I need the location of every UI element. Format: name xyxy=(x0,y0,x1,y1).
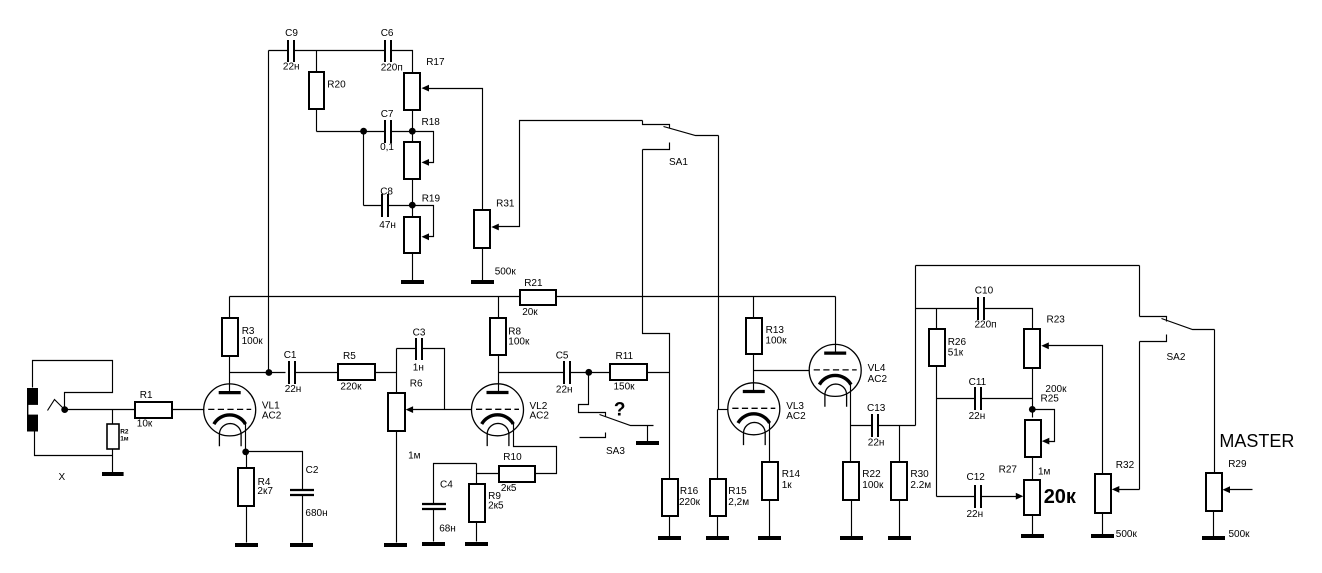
svg-text:22н: 22н xyxy=(868,437,885,448)
wire to C4 xyxy=(434,464,477,505)
R25 wiper arrow xyxy=(1042,438,1050,445)
R32 wiper arrow xyxy=(1112,486,1120,493)
wire R29 bottom lead xyxy=(1213,512,1215,537)
wire R20 bottom lead xyxy=(316,110,318,132)
svg-text:20к: 20к xyxy=(1044,486,1077,508)
wire C9 to C6 xyxy=(295,50,385,52)
capacitor C1 xyxy=(289,361,295,384)
svg-text:220к: 220к xyxy=(340,382,362,393)
wire cathode to C2 xyxy=(246,452,303,491)
resistor R26 xyxy=(929,329,945,366)
wire C7 node down to C8 xyxy=(363,132,365,206)
wire R6 bottom lead xyxy=(396,431,398,543)
wire R30 bottom lead xyxy=(899,500,901,537)
svg-text:R19: R19 xyxy=(422,193,441,204)
resistor R20 xyxy=(309,72,324,109)
svg-text:AC2: AC2 xyxy=(868,374,888,385)
node R19 top junction xyxy=(409,202,416,209)
svg-text:R21: R21 xyxy=(524,278,543,289)
wire R30 top lead xyxy=(899,426,901,463)
wire R15 bottom lead xyxy=(717,516,719,537)
svg-text:1н: 1н xyxy=(413,362,424,373)
svg-text:C13: C13 xyxy=(867,403,886,414)
wire SA1 lower contact down xyxy=(643,150,670,480)
wire VL4 plate lead xyxy=(835,297,837,354)
svg-text:R16: R16 xyxy=(680,486,699,497)
svg-text:R23: R23 xyxy=(1047,314,1066,325)
resistor R3 xyxy=(222,318,238,356)
wire top row C9 segment xyxy=(269,50,289,52)
jack break contact xyxy=(48,400,65,411)
wire C12 to R27 wiper xyxy=(982,496,1017,498)
wire C11 to R23-R25 link xyxy=(982,398,1033,400)
R19 wiper arrow xyxy=(422,233,430,240)
capacitor C4 xyxy=(422,504,446,509)
wire R11 right lead xyxy=(648,372,670,374)
wire C13 right xyxy=(878,425,916,427)
wire C10 to R23 xyxy=(985,309,1033,329)
svg-text:2к5: 2к5 xyxy=(501,483,517,494)
svg-text:R14: R14 xyxy=(782,469,801,480)
svg-text:20к: 20к xyxy=(522,307,538,318)
svg-text:51к: 51к xyxy=(948,348,964,359)
wire R5 to R6 node xyxy=(376,372,397,374)
svg-text:AC2: AC2 xyxy=(530,411,550,422)
svg-text:C4: C4 xyxy=(440,479,453,490)
wire R8 bottom lead xyxy=(498,356,500,373)
capacitor C7 xyxy=(385,120,391,143)
svg-text:R26: R26 xyxy=(948,337,967,348)
svg-text:R32: R32 xyxy=(1116,460,1135,471)
wire R4 bottom lead xyxy=(246,506,248,543)
wire R3 bottom lead xyxy=(229,356,231,373)
R23 wiper arrow xyxy=(1041,342,1049,349)
triode VL4 xyxy=(809,344,861,406)
svg-text:500к: 500к xyxy=(495,267,517,278)
svg-text:22н: 22н xyxy=(967,509,984,520)
capacitor C3 xyxy=(416,338,422,360)
svg-text:VL1: VL1 xyxy=(262,400,280,411)
svg-text:220п: 220п xyxy=(381,63,403,74)
svg-text:R18: R18 xyxy=(422,117,441,128)
switch SA1 upper contact xyxy=(643,121,670,129)
wire VL2 anode row xyxy=(499,372,564,374)
svg-text:150к: 150к xyxy=(614,381,636,392)
ground R9 xyxy=(465,542,488,546)
ground C2 xyxy=(290,543,313,547)
wire R23 wiper to R32 xyxy=(1048,346,1103,474)
potentiometer R6 xyxy=(388,393,405,431)
svg-text:R1: R1 xyxy=(140,390,153,401)
capacitor C13 xyxy=(872,414,878,437)
wire VL1 anode row xyxy=(230,372,286,374)
svg-text:X: X xyxy=(59,472,66,483)
svg-text:C11: C11 xyxy=(969,377,987,388)
wire R15 top lead / VL3 grid feed xyxy=(717,410,719,480)
svg-text:1к: 1к xyxy=(782,480,793,491)
switch SA1 arm xyxy=(664,127,719,136)
ground R2 xyxy=(102,472,124,476)
ground R6 xyxy=(384,543,407,547)
svg-text:AC2: AC2 xyxy=(262,411,282,422)
svg-text:1м: 1м xyxy=(120,436,129,443)
wire R22 bottom lead xyxy=(851,500,853,537)
capacitor C5 xyxy=(564,361,570,384)
wire R10 left lead xyxy=(477,473,499,475)
wire R17 bottom lead xyxy=(412,110,414,132)
wire jack sleeve xyxy=(35,432,113,456)
ground R19 xyxy=(401,280,424,284)
wire R25 to R27 xyxy=(1032,457,1034,480)
wire C12 row xyxy=(937,496,976,498)
svg-text:22н: 22н xyxy=(285,384,302,395)
capacitor C10 xyxy=(978,297,984,320)
node R25 wiper junction xyxy=(1029,406,1036,413)
triode VL3 xyxy=(728,383,780,445)
wire VL3 grid lead xyxy=(718,409,729,411)
wire C2 bottom lead xyxy=(302,496,304,543)
wire tone feedback vertical xyxy=(268,51,270,373)
wire C6 to R17 xyxy=(391,51,413,73)
resistor R11 xyxy=(610,364,647,380)
input jack X xyxy=(27,388,38,432)
potentiometer R19 xyxy=(404,217,420,253)
svg-text:R29: R29 xyxy=(1228,459,1247,470)
wire SA3 ground stem xyxy=(647,426,649,442)
svg-text:R27: R27 xyxy=(999,464,1018,475)
switch SA3 arm xyxy=(600,415,654,426)
wire jack loop xyxy=(33,361,113,410)
svg-text:SA3: SA3 xyxy=(606,446,625,457)
wire R32 wiper to SA2 xyxy=(1119,489,1140,491)
R17 wiper arrow xyxy=(422,85,430,92)
svg-text:680н: 680н xyxy=(305,508,327,519)
ground R22 xyxy=(840,536,863,540)
wire R9 C4 junction xyxy=(476,464,478,485)
switch SA3 lower contact xyxy=(580,433,606,438)
svg-text:R6: R6 xyxy=(410,379,423,390)
wire C1 to R5 xyxy=(296,372,338,374)
svg-text:MASTER: MASTER xyxy=(1219,431,1294,451)
potentiometer R27 xyxy=(1024,480,1040,515)
wire C3 right down to grid xyxy=(423,349,445,410)
potentiometer R32 xyxy=(1095,474,1111,513)
resistor R5 xyxy=(338,364,375,380)
wire R32 bottom lead xyxy=(1102,514,1104,535)
wire R13 bottom lead xyxy=(753,355,755,371)
wire R2 bottom lead xyxy=(112,449,114,473)
wire C11 row left xyxy=(937,398,976,400)
wire R1 to VL1 grid xyxy=(172,409,205,411)
wire VL4 cathode lead xyxy=(850,385,852,426)
R25 wiper loop xyxy=(1033,410,1055,442)
svg-text:R20: R20 xyxy=(327,80,346,91)
potentiometer R31 xyxy=(474,210,490,248)
svg-text:22н: 22н xyxy=(556,384,573,395)
svg-text:C2: C2 xyxy=(306,465,319,476)
svg-text:100к: 100к xyxy=(508,337,530,348)
svg-text:R31: R31 xyxy=(496,199,515,210)
wire R20 to C7 xyxy=(317,131,386,133)
wire R19 top lead xyxy=(412,206,414,218)
svg-text:22н: 22н xyxy=(283,61,300,72)
ground SA3 xyxy=(636,441,659,445)
wire R4 top lead xyxy=(246,452,248,468)
ground R4 xyxy=(235,543,258,547)
svg-text:2,2м: 2,2м xyxy=(728,497,749,508)
potentiometer R25 xyxy=(1025,420,1041,457)
svg-text:C6: C6 xyxy=(381,28,394,39)
wire R19 bottom lead xyxy=(412,254,414,281)
ground R29 xyxy=(1202,536,1225,540)
wire R26 top lead xyxy=(936,309,938,329)
switch SA2 upper contact xyxy=(1140,317,1167,322)
svg-text:500к: 500к xyxy=(1116,529,1138,540)
wire R29 wiper stub xyxy=(1230,489,1253,491)
svg-text:1м: 1м xyxy=(1038,467,1051,478)
node R18 top junction xyxy=(409,128,416,135)
svg-text:R11: R11 xyxy=(616,351,634,362)
wire R6 top lead xyxy=(396,349,398,394)
wire top bypass row xyxy=(916,265,1140,267)
svg-text:2к7: 2к7 xyxy=(257,486,273,497)
svg-text:C1: C1 xyxy=(284,350,297,361)
R6 wiper arrow xyxy=(406,406,414,413)
resistor R8 xyxy=(490,318,506,355)
svg-text:R10: R10 xyxy=(503,452,522,463)
ground C4 xyxy=(422,542,445,546)
capacitor C9 xyxy=(288,40,294,62)
wire B+ bus left xyxy=(230,296,520,298)
triode VL2 xyxy=(472,384,524,446)
capacitor C8 xyxy=(382,194,388,217)
ground R14 xyxy=(758,536,781,540)
svg-text:C9: C9 xyxy=(285,28,298,39)
wire R18 top lead xyxy=(412,132,414,143)
svg-text:2к5: 2к5 xyxy=(488,501,504,512)
resistor R13 xyxy=(746,318,762,354)
capacitor C12 xyxy=(975,485,981,508)
svg-text:22н: 22н xyxy=(969,411,986,422)
wire R9 bottom lead xyxy=(476,523,478,542)
R27 wiper arrow xyxy=(1016,493,1024,500)
resistor R9 xyxy=(469,484,485,522)
wire VL3 cathode lead xyxy=(769,423,771,463)
wire R16 bottom lead xyxy=(669,516,671,537)
wire C13 node up xyxy=(915,266,917,426)
wire B+ bus right xyxy=(557,296,836,298)
potentiometer R29 xyxy=(1206,473,1222,511)
wire C4 bottom lead xyxy=(433,509,435,542)
wire top row down to SA2 xyxy=(1139,266,1141,317)
svg-text:R15: R15 xyxy=(728,486,747,497)
svg-text:C8: C8 xyxy=(380,186,393,197)
svg-text:R13: R13 xyxy=(766,325,785,336)
svg-text:R30: R30 xyxy=(910,469,929,480)
R31 wiper arrow xyxy=(491,224,499,231)
wire SA2 common down to R29 xyxy=(1214,330,1216,474)
svg-text:10к: 10к xyxy=(137,418,153,429)
svg-text:100к: 100к xyxy=(242,336,264,347)
switch SA1 lower contact xyxy=(643,143,670,150)
wire jack to R1 xyxy=(65,409,135,411)
wire C10 row xyxy=(916,308,979,310)
svg-text:C7: C7 xyxy=(381,109,394,120)
wire C5 to R11 xyxy=(570,372,611,374)
wire R6 wiper to VL2 grid xyxy=(413,409,472,411)
ground R31 xyxy=(471,280,494,284)
wire C5 node to SA3 xyxy=(579,373,606,417)
switch SA2 arm xyxy=(1162,319,1215,330)
resistor R2 xyxy=(107,424,119,449)
svg-text:R17: R17 xyxy=(426,57,445,68)
wire R23 to R25 xyxy=(1032,369,1034,418)
wire C7 to R18 node xyxy=(392,131,413,133)
capacitor C2 xyxy=(290,490,314,495)
capacitor C11 xyxy=(975,387,981,410)
wire VL1 plate lead xyxy=(229,373,231,393)
wire R26 bottom vertical xyxy=(936,367,938,497)
resistor R1 xyxy=(135,402,172,418)
resistor R14 xyxy=(762,462,778,500)
resistor R21 xyxy=(520,290,556,305)
wire R2 top lead xyxy=(112,410,114,425)
wire R8 top lead xyxy=(498,297,500,319)
R19 wiper loop xyxy=(413,206,434,237)
svg-text:VL4: VL4 xyxy=(868,363,886,374)
wire R31 wiper to SA1 xyxy=(498,121,643,227)
potentiometer R17 xyxy=(404,73,420,110)
wire R14 bottom lead xyxy=(769,500,771,537)
node anode-tone loop junction xyxy=(266,369,273,376)
node C7 row junction xyxy=(360,128,367,135)
potentiometer R18 xyxy=(404,142,420,179)
wire R20 top lead xyxy=(316,51,318,72)
wire VL1 cathode lead xyxy=(245,424,247,452)
svg-text:220к: 220к xyxy=(679,497,701,508)
wire R22 top lead xyxy=(850,426,852,463)
wire R18 bottom lead xyxy=(412,179,414,206)
resistor R4 xyxy=(238,468,254,506)
svg-text:0,1: 0,1 xyxy=(380,142,394,153)
switch SA2 lower contact xyxy=(1140,335,1167,342)
svg-text:SA2: SA2 xyxy=(1167,352,1186,363)
ground R16 xyxy=(658,536,681,540)
wire R31 bottom lead xyxy=(482,248,484,281)
ground R30 xyxy=(888,536,911,540)
resistor R30 xyxy=(891,462,907,500)
svg-text:?: ? xyxy=(614,399,626,420)
svg-text:C5: C5 xyxy=(556,350,569,361)
wire R3 top lead xyxy=(229,297,231,319)
potentiometer R23 xyxy=(1024,329,1040,368)
resistor R16 xyxy=(662,479,678,516)
capacitor C6 xyxy=(385,40,391,62)
wire VL2 plate lead xyxy=(498,373,500,393)
svg-text:2.2м: 2.2м xyxy=(910,480,931,491)
svg-text:500к: 500к xyxy=(1229,529,1251,540)
R29 wiper arrow xyxy=(1223,486,1231,493)
svg-text:R2: R2 xyxy=(120,429,129,436)
R18 wiper loop xyxy=(413,132,434,163)
svg-text:1м: 1м xyxy=(408,451,421,462)
resistor R22 xyxy=(843,462,859,500)
wire R27 bottom lead xyxy=(1032,515,1034,535)
svg-text:100к: 100к xyxy=(765,336,787,347)
wire C3 left xyxy=(397,348,417,350)
triode VL1 xyxy=(204,384,256,446)
svg-text:100к: 100к xyxy=(862,480,884,491)
ground R15 xyxy=(706,536,729,540)
wire to C8 xyxy=(364,205,383,207)
svg-text:68н: 68н xyxy=(439,523,456,534)
wire R17 wiper to R31 xyxy=(429,89,483,211)
ground R32 xyxy=(1091,534,1114,538)
node VL1 cathode junction xyxy=(242,449,249,456)
svg-text:AC2: AC2 xyxy=(786,411,806,422)
svg-text:C10: C10 xyxy=(975,286,994,297)
svg-text:R22: R22 xyxy=(862,469,881,480)
svg-text:220п: 220п xyxy=(975,320,997,331)
svg-text:R5: R5 xyxy=(343,351,356,362)
svg-text:47н: 47н xyxy=(379,220,396,231)
resistor R10 xyxy=(499,466,535,482)
R18 wiper arrow xyxy=(422,159,430,166)
wire SA2 lower contact down to R32 wiper xyxy=(1139,342,1141,490)
svg-text:R25: R25 xyxy=(1041,394,1060,405)
resistor R15 xyxy=(710,479,726,516)
ground R27 xyxy=(1021,534,1044,538)
wire C8 to R19 node xyxy=(389,205,413,207)
node C5-R11-SA3 junction xyxy=(585,369,592,376)
svg-text:SA1: SA1 xyxy=(669,157,688,168)
svg-text:C12: C12 xyxy=(967,472,986,483)
wire VL4 cathode row xyxy=(851,425,872,427)
wire SA1 common down to VL3 grid xyxy=(718,136,720,410)
svg-text:C3: C3 xyxy=(413,328,426,339)
node jack tip junction xyxy=(61,406,68,413)
wire VL2 cathode lead xyxy=(514,424,557,474)
wire VL3 anode to VL4 grid xyxy=(754,370,810,372)
wire VL3 plate lead xyxy=(753,371,755,392)
wire R13 top lead xyxy=(753,297,755,318)
